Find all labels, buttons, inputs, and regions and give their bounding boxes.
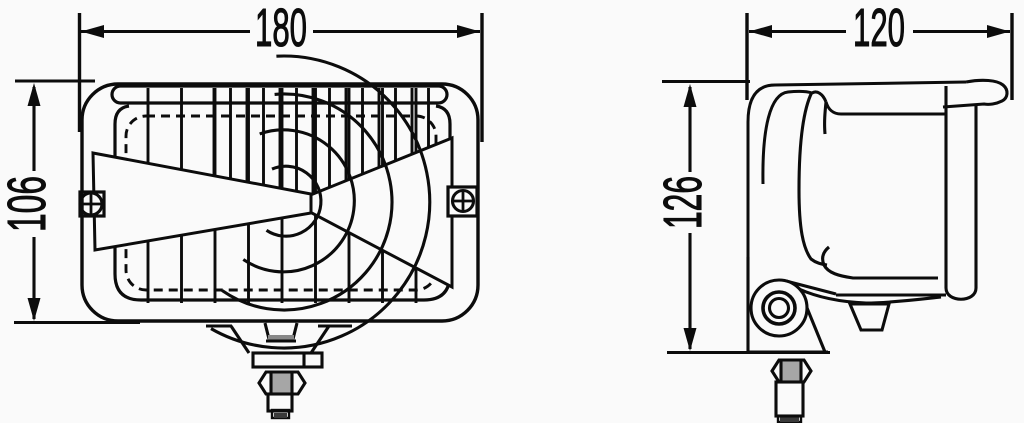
dimension 120 line [749,30,1010,33]
svg-text:180: 180 [255,0,307,58]
lamp body outline [82,84,478,321]
dimension 106 extension lines [15,79,95,82]
lower boot curve [799,289,941,303]
rear strap band [946,86,976,299]
connector plug [850,304,889,330]
pivot circles [751,280,807,336]
left wedge of beam bowtie [93,153,311,250]
front bolt shaft [268,394,292,411]
front bolt nut [259,372,305,394]
dimension 120 extension lines [745,13,748,100]
bezel top cap [812,92,826,102]
front mounting bracket [206,323,352,367]
top rear lip [943,80,1007,107]
lens front surface curve [763,91,812,184]
dashed lens inner rectangle [126,116,436,290]
svg-text:106: 106 [0,176,57,232]
side bolt nut [772,360,811,382]
dimension 126 line [688,87,691,349]
housing box [825,102,946,295]
svg-text:120: 120 [853,0,905,58]
boot upper swoosh [823,247,938,278]
dimension 126 extension lines [662,80,750,83]
bezel back curve [799,92,827,265]
dimension 106 line [32,87,35,319]
right screw tab [448,187,477,216]
side outline: front face + top edge [748,82,966,257]
side bolt tip [778,416,801,422]
concentric lens arcs [267,166,321,236]
dimension 180 line [81,30,480,33]
right wedge of beam bowtie [308,138,452,287]
dimension 180 extension lines [78,13,81,132]
lens inner rounded rectangle [115,106,450,300]
side bolt shaft [776,382,803,416]
front bolt tip [272,410,289,418]
right screw [453,191,474,212]
lens vertical ribs [148,88,429,303]
side bracket [748,257,836,352]
lens top capsule bar [112,86,447,103]
left screw tab [80,192,104,216]
left screw [80,193,102,215]
svg-text:126: 126 [653,176,713,229]
